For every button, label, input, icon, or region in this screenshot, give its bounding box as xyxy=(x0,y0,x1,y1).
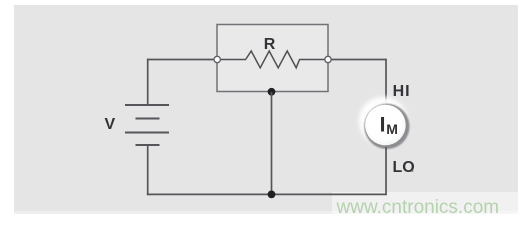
node left (open circle) xyxy=(214,56,220,62)
ammeter IM body xyxy=(365,105,406,146)
wire right vertical lower xyxy=(385,147,387,195)
node right (open circle) xyxy=(325,56,331,62)
wire top-right horizontal xyxy=(331,59,387,61)
ammeter IM glow xyxy=(359,97,407,145)
svg-text:M: M xyxy=(386,121,398,137)
wire top-left horizontal xyxy=(147,59,214,61)
wire resistor lead right xyxy=(299,59,325,61)
wire bottom horizontal xyxy=(147,193,387,195)
junction dot at box bottom xyxy=(268,88,276,96)
svg-text:HI: HI xyxy=(393,83,411,100)
label LO period xyxy=(412,170,414,172)
wire resistor lead left xyxy=(220,59,246,61)
resistor R zigzag xyxy=(246,51,300,68)
battery V xyxy=(125,105,169,145)
ammeter IM rim ring xyxy=(364,104,409,149)
svg-text:R: R xyxy=(264,36,276,53)
wire left vertical upper xyxy=(147,59,149,105)
watermark band xyxy=(332,192,518,219)
junction dot bottom wire xyxy=(268,191,276,199)
svg-text:LO: LO xyxy=(393,159,415,176)
wire right vertical upper xyxy=(385,59,387,106)
resistor box xyxy=(217,25,328,92)
svg-text:I: I xyxy=(380,114,386,137)
wire left vertical lower xyxy=(147,145,149,195)
svg-text:www.cntronics.com: www.cntronics.com xyxy=(336,197,500,218)
svg-text:V: V xyxy=(105,116,116,133)
wire center vertical xyxy=(271,92,273,194)
